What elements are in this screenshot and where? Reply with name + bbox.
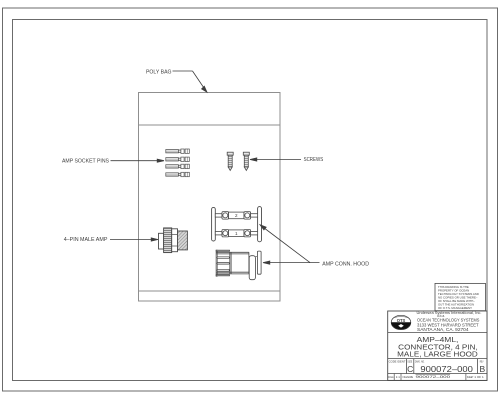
jack screw 1 xyxy=(215,230,257,237)
hood left edge xyxy=(216,250,217,276)
svg-text:4–PIN MALE AMP: 4–PIN MALE AMP xyxy=(64,237,108,243)
leader AMP CONN. HOOD diagonal xyxy=(260,225,310,263)
drawing title xyxy=(397,335,478,359)
4-pin male amp connector xyxy=(159,228,188,253)
leader AMP SOCKET PINS xyxy=(111,159,165,162)
hood cable clamp xyxy=(249,256,255,280)
svg-text:C: C xyxy=(407,364,413,374)
jack screw assembly left bar xyxy=(212,207,216,241)
svg-text:SANTA ANA, CA. 92704: SANTA ANA, CA. 92704 xyxy=(417,327,469,332)
title block: main outline xyxy=(388,311,487,380)
rear hatched shell xyxy=(178,231,188,250)
hood body right edge xyxy=(248,252,250,274)
hood bottom plate xyxy=(216,275,230,276)
scale row dividers xyxy=(394,374,466,381)
filename overline xyxy=(416,373,451,375)
title block row lines xyxy=(388,333,487,374)
mid cylinder xyxy=(172,229,178,252)
svg-text:2: 2 xyxy=(235,213,238,218)
leader SCREWS xyxy=(250,158,301,161)
property notice text xyxy=(438,285,479,310)
poly bag top seal line xyxy=(139,124,281,126)
svg-text:OTS: OTS xyxy=(397,318,406,323)
svg-text:SIZE: SIZE xyxy=(407,359,412,363)
hood right flange xyxy=(257,251,261,274)
poly bag bottom seal line xyxy=(139,290,281,292)
company logo OTS xyxy=(391,315,411,329)
svg-text:1:1: 1:1 xyxy=(396,375,400,379)
svg-text:Undersea Systems International: Undersea Systems International, Inc. xyxy=(417,311,482,315)
svg-text:SCALE: SCALE xyxy=(388,375,394,379)
hood rib 1 xyxy=(217,257,229,259)
title block: property notice box xyxy=(435,283,486,310)
svg-text:1 OF 1: 1 OF 1 xyxy=(474,375,484,379)
hood body left flange lines xyxy=(229,252,231,274)
screw 1 xyxy=(227,152,233,170)
svg-text:POLY BAG: POLY BAG xyxy=(146,69,172,75)
jack screw assembly right bar xyxy=(258,207,262,242)
svg-text:AMP SOCKET PINS: AMP SOCKET PINS xyxy=(62,159,109,165)
jack screw 2 xyxy=(215,212,257,219)
svg-text:SHEET: SHEET xyxy=(467,375,474,379)
hood rib 2 xyxy=(217,263,229,265)
svg-text:CODE IDENT: CODE IDENT xyxy=(389,359,406,363)
svg-text:900072–000: 900072–000 xyxy=(416,374,452,379)
scale row texts xyxy=(388,374,484,379)
hood rib 3 xyxy=(217,269,229,271)
screw 2 xyxy=(243,152,249,170)
amp socket pins (4) xyxy=(166,149,190,177)
poly bag outline xyxy=(139,93,281,302)
hood body top lines xyxy=(216,251,249,253)
svg-text:900072–000: 900072–000 xyxy=(420,364,473,374)
knurled coupling ring xyxy=(164,228,172,253)
company name and address xyxy=(417,311,482,332)
svg-text:MALE, LARGE HOOD: MALE, LARGE HOOD xyxy=(397,350,478,359)
id row labels xyxy=(389,359,484,363)
leader POLY BAG xyxy=(173,71,208,92)
svg-text:REV: REV xyxy=(480,359,484,363)
svg-text:1: 1 xyxy=(235,231,238,236)
svg-text:DWG. NO.: DWG. NO. xyxy=(415,359,425,363)
front barrel xyxy=(159,233,164,249)
svg-text:AMP CONN. HOOD: AMP CONN. HOOD xyxy=(322,261,369,267)
hood top plate xyxy=(216,250,230,251)
svg-text:OF O.T.S. MANAGEMENT.: OF O.T.S. MANAGEMENT. xyxy=(438,306,472,310)
svg-text:SCREWS: SCREWS xyxy=(304,157,324,163)
svg-text:B: B xyxy=(479,364,485,374)
leader AMP CONN. HOOD horizontal xyxy=(263,261,320,264)
hood body bottom lines xyxy=(216,271,249,273)
amp conn hood xyxy=(216,250,261,280)
id row dividers xyxy=(407,359,478,374)
leader 4-PIN MALE AMP xyxy=(110,238,158,241)
svg-text:FILENAME: FILENAME xyxy=(403,375,414,379)
